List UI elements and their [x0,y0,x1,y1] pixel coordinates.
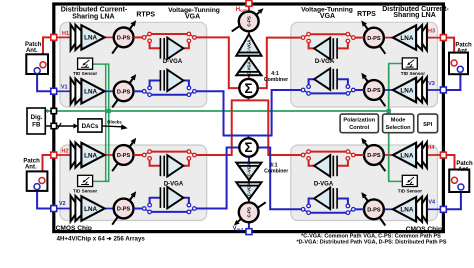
wire patch ANT3 V feed [443,72,460,90]
label: Distributed Current-Sharing LNA (top-left) [61,7,128,21]
wire H3: pad to LNA [427,37,444,39]
svg-text:TID Sensor: TID Sensor [73,188,97,193]
wire V-combiner bus tee to sigma [248,136,250,140]
svg-text:D-VGA: D-VGA [163,59,183,65]
svg-text:Sharing LNA: Sharing LNA [72,14,114,21]
green junction dot left [107,109,111,113]
wire patch ANT4 H feed [443,155,454,177]
svg-text:C-VGA: C-VGA [247,61,252,75]
green net arrows into Dig.FB [45,109,49,113]
svg-text:H2: H2 [61,149,68,155]
svg-text:LNA: LNA [84,206,97,213]
svg-text:V4: V4 [428,199,436,205]
green vertical wire left A [105,64,107,181]
wire H3 out to H-combiner [257,38,303,89]
LNA V3 (distributed current-sharing LNA) [393,77,427,103]
svg-text:Control: Control [349,125,369,131]
svg-text:Ant.: Ant. [26,48,38,54]
svg-text:V3: V3 [428,81,435,87]
svg-text:FB: FB [32,122,41,129]
wire V3: LNA to D-PS [384,89,393,91]
wire H2: LNA to D-PS [105,154,114,156]
label: Voltage-Tuning VGA (right) [301,6,353,20]
svg-text:Σ: Σ [244,81,252,96]
common-path phase shifter C-PS V (C-PS) [234,202,266,225]
wire V3 out to V-combiner bus [272,90,304,136]
wire V1: pad to LNA [54,90,71,92]
svg-text:C-VGA: C-VGA [247,40,252,54]
label 4:1 Combiner (V) [264,162,288,174]
wire V-combiner top bus [223,135,273,137]
svg-text:TID Sensor: TID Sensor [398,188,422,193]
svg-text:Combiner: Combiner [264,77,288,83]
common-path VGA C-VGA H2s [236,58,261,75]
green vertical wire left B [108,64,110,181]
svg-text:H4: H4 [427,145,435,151]
TID sensor U6 [73,175,97,193]
pad H1 [51,34,57,40]
svg-text:LNA: LNA [84,152,97,159]
patch antenna ANT2 [27,171,48,191]
wire patch ANT3 H feed [443,38,454,61]
green TID/bias net: mid horizontal wire [45,110,388,112]
bypass switch + amplifier D-VGA VGA-V1 [134,70,197,97]
svg-text:C-VGA: C-VGA [247,163,252,177]
svg-text:Mode: Mode [391,118,406,124]
svg-text:Vout: Vout [233,226,244,232]
svg-text:D-VGA: D-VGA [164,181,184,187]
pad H_out [246,0,252,6]
svg-text:Ant.: Ant. [458,167,470,173]
LNA V1 (distributed current-sharing LNA) [71,79,105,105]
svg-text:D-PS: D-PS [367,88,381,94]
svg-text:D-PS: D-PS [117,153,131,159]
CMOS chip border [54,4,444,232]
bypass switch + amplifier D-VGA VGA-V3 [301,68,364,95]
svg-text:LNA: LNA [84,89,97,96]
phase shifter PS-V2 (D-PS) [112,191,136,224]
pad V2 [51,206,57,212]
svg-text:D-PS: D-PS [367,208,381,214]
svg-text:LNA: LNA [400,152,413,159]
phase shifter PS-V3 (D-PS) [361,73,385,106]
pad H3 [440,35,446,41]
quadrant background top-right [291,22,438,107]
pad V4 [440,206,446,212]
phase shifter PS-H4 (D-PS) [361,138,385,171]
patch antenna ANT3 [449,53,468,75]
svg-text:Dig.: Dig. [31,114,43,121]
svg-text:*D-VGA: Distributed Path VGA,: *D-VGA: Distributed Path VGA, D-PS: Dist… [296,240,446,246]
wire H1: LNA to D-PS [105,36,114,38]
wire V2: pad to LNA [54,208,71,210]
svg-text:VGA: VGA [320,13,335,20]
svg-text:Patch: Patch [25,42,42,48]
pad V3 [440,87,446,93]
label patch ANT2 [23,159,40,171]
bypass switch + amplifier D-VGA VGA-V2 [134,187,197,214]
svg-text:LNA: LNA [400,87,413,94]
svg-text:Hout: Hout [236,7,247,13]
wire H-combiner bottom bus [231,99,269,101]
svg-text:H1: H1 [62,31,69,37]
svg-text:Ant.: Ant. [25,165,37,171]
svg-text:CMOS Chip: CMOS Chip [56,225,92,232]
svg-text:Polarization: Polarization [343,118,375,124]
common-path VGA C-VGA H1s [236,34,261,56]
svg-text:4H+4V/Chip x 64 ➔ 256 Arrays: 4H+4V/Chip x 64 ➔ 256 Arrays [57,236,146,243]
svg-text:D-PS: D-PS [117,207,131,213]
LNA H3 (distributed current-sharing LNA) [393,25,427,51]
wire H2: pad to LNA [54,154,71,156]
bypass switch + amplifier D-VGA VGA-H3 [301,32,364,59]
green vertical wire right [388,64,390,182]
LNA V2 (distributed current-sharing LNA) [71,196,105,222]
svg-text:4:1: 4:1 [270,162,278,168]
LNA V4 (distributed current-sharing LNA) [393,197,427,223]
TID sensor U8 [398,175,422,193]
wire H4: LNA to D-PS [384,154,393,156]
wire C-PS to V_out pad [248,222,250,232]
wire V2: LNA to D-PS [105,208,114,210]
wire V4 out to V-combiner [257,148,303,210]
quadrant background top-left [60,22,207,107]
polarization control block [340,114,378,133]
svg-text:TID Sensor: TID Sensor [73,71,97,76]
wire C-PS to C-VGA chain (H) [248,31,250,35]
svg-text:D-PS: D-PS [367,153,381,159]
phase shifter PS-H1 (D-PS) [112,20,136,53]
label patch ANT1 [25,42,42,54]
wire H_out pad to C-PS [248,3,250,12]
phase shifter PS-H3 (D-PS) [361,20,385,53]
wire patch ANT2 V feed [37,190,54,209]
wire H1 out to H-combiner [194,37,240,88]
wire H4 out riser to H-combiner bus [268,100,303,155]
svg-text:Ant.: Ant. [457,48,469,54]
svg-text:TID Sensor: TID Sensor [401,71,425,76]
svg-text:RTPS: RTPS [136,11,155,18]
svg-text:LNA: LNA [400,35,413,42]
svg-text:LNA: LNA [400,207,413,214]
wire patch ANT1 H feed [43,37,54,62]
bypass switch + amplifier D-VGA VGA-H2 [134,150,197,177]
patch antenna ANT4 [449,170,469,193]
pad V1 [51,88,57,94]
svg-text:Sharing LNA: Sharing LNA [393,12,435,19]
SPI block [418,114,438,133]
wire V1 out to V-combiner bus [194,91,223,135]
pad H2 [51,152,57,158]
svg-text:D-PS: D-PS [117,90,131,96]
wire H4: pad to LNA [427,154,444,156]
svg-text:V2: V2 [59,201,66,207]
wire DACs to blocks (arrow) [102,120,128,130]
TID sensor U5 [73,58,97,76]
svg-text:Selection: Selection [386,125,411,131]
pad H4 [440,152,446,158]
green junction dot right [387,109,391,113]
junction node on border (green net) [51,108,56,113]
phase shifter PS-V4 (D-PS) [361,192,385,225]
svg-text:D-PS: D-PS [117,36,131,42]
svg-text:SPI: SPI [423,122,432,128]
digital feedback block Dig.FB [27,108,45,134]
common-path VGA C-VGA V2s [236,182,261,199]
wire V4: LNA to D-PS [384,208,393,210]
green wire stub to TID sensor U7 [388,63,402,65]
svg-text:C-PS: C-PS [247,16,252,27]
wire sigma V to C-VGA chain (V) [248,156,250,163]
quadrant background bottom-right [291,145,438,221]
wire Dig.FB to DACs [45,123,78,129]
TID sensor U7 [401,58,425,76]
4:1 combiner H-combiner [239,79,257,97]
svg-text:D-VGA: D-VGA [314,181,334,187]
wire H2 out riser to H-combiner bus [194,100,231,155]
label: Distributed Current-Sharing LNA (top-right) [382,6,449,19]
wire V3: pad to LNA [427,89,444,91]
svg-text:CMOS Chip: CMOS Chip [406,226,442,233]
patch antenna ANT1 [26,54,48,74]
wire H-combiner bus tee to sigma [248,97,250,101]
label 4:1 Combiner (H) [264,71,288,83]
svg-text:VGA: VGA [185,14,200,21]
phase shifter PS-V1 (D-PS) [112,74,136,107]
bypass switch + amplifier D-VGA VGA-V4 [301,188,364,215]
mode selection block [383,114,414,133]
label patch ANT4 [456,161,473,173]
svg-text:Blocks: Blocks [107,120,122,125]
label: Voltage-Tuning VGA (left) [168,7,220,21]
green wire stub to TID sensor U5 [93,63,110,65]
svg-text:C-VGA: C-VGA [247,183,252,197]
svg-text:D-VGA: D-VGA [315,59,335,65]
svg-text:Combiner: Combiner [264,169,288,175]
common-path phase shifter C-PS H (C-PS) [232,8,264,31]
svg-text:D-PS: D-PS [367,36,381,42]
wire H1: pad to LNA [54,36,71,38]
phase shifter PS-H2 (D-PS) [112,138,136,171]
common-path VGA C-VGA V1s [236,163,261,180]
wire patch ANT1 V feed [37,74,54,92]
wire V1: LNA to D-PS [105,90,114,92]
bypass switch + amplifier D-VGA VGA-H1 [134,32,197,59]
svg-text:RTPS: RTPS [357,11,376,18]
bypass switch + amplifier D-VGA VGA-H4 [301,150,364,177]
junction node on border (DAC net) [51,123,56,128]
svg-text:Σ: Σ [244,140,252,155]
label patch ANT3 [455,43,472,55]
wire V4: pad to LNA [427,208,444,210]
pad V_out [246,229,252,235]
svg-text:V1: V1 [61,84,68,90]
4:1 combiner V-combiner [239,138,257,156]
wire patch ANT4 V feed [443,190,461,209]
green wire stub to TID sensor U6 [93,180,110,182]
green wire stub to TID sensor U8 [388,180,402,182]
svg-text:DACs: DACs [82,123,99,130]
wire patch ANT2 H feed [43,155,54,178]
wire V2 out to V-combiner [194,148,240,209]
svg-text:C-PS: C-PS [247,207,252,218]
svg-text:H3: H3 [428,29,435,35]
LNA H1 (distributed current-sharing LNA) [71,25,105,51]
quadrant background bottom-left [60,145,207,221]
svg-text:LNA: LNA [84,35,97,42]
LNA H2 (distributed current-sharing LNA) [71,142,105,168]
DACs block [78,119,102,132]
wire H3: LNA to D-PS [384,37,393,39]
LNA H4 (distributed current-sharing LNA) [393,142,427,168]
